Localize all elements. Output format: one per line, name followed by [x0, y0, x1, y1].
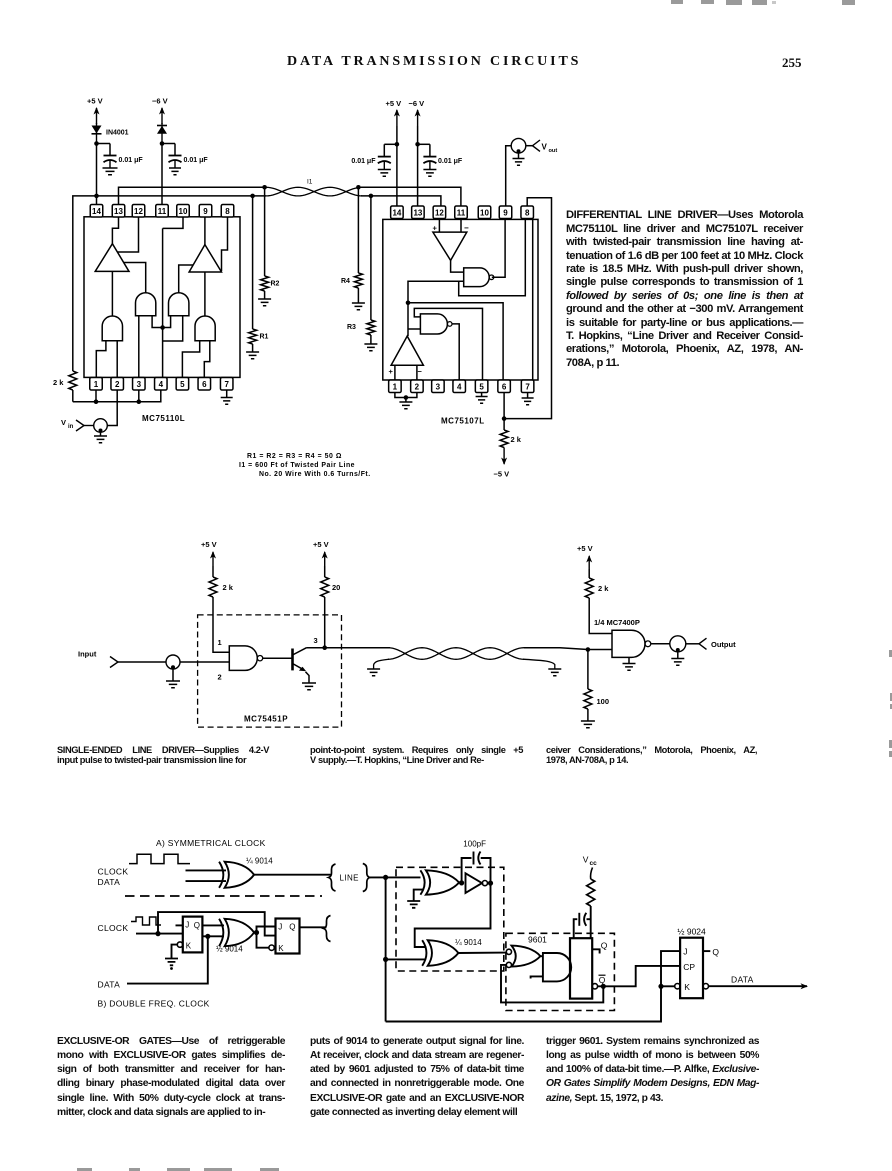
svg-text:R3: R3	[347, 324, 356, 331]
node pin1/bias	[94, 399, 99, 404]
Qbar output bubble (9601)	[592, 984, 597, 989]
node: line B / R1 junction	[250, 194, 255, 199]
NAND gate B (U2)	[420, 314, 447, 334]
wire clock input to XOR1	[186, 869, 227, 871]
wire delayed signal to XOR4	[415, 883, 491, 947]
-5V supply arrow	[494, 448, 510, 479]
svg-text:out: out	[549, 148, 558, 154]
wire stage A output to gate D	[111, 271, 113, 316]
node clock feedback tap	[155, 931, 160, 936]
wire NAND B upper input to pin 5	[414, 308, 482, 380]
wire branch to NAND B lower input	[408, 328, 420, 330]
pin 7 (U2 bottom)	[521, 380, 534, 393]
pin 14 (U1 top)	[90, 205, 103, 218]
ground stub left of line	[367, 659, 389, 676]
pin 2 (U2 bottom)	[411, 380, 424, 393]
twisted pair I1	[266, 187, 362, 196]
wire gate C to pin 6	[204, 341, 210, 378]
svg-text:+5 V: +5 V	[201, 540, 217, 549]
wire pin3 to bias rail	[138, 390, 140, 402]
Vout terminal	[526, 140, 558, 154]
wire pin2 to comparator B	[416, 365, 418, 380]
svg-text:10: 10	[480, 208, 489, 217]
wire gate B to centre rail	[163, 316, 183, 341]
resistor 2k (7400 input pull-up)	[585, 569, 609, 598]
wire gate A to pin 3	[138, 316, 140, 378]
Output terminal	[686, 638, 736, 649]
svg-text:K: K	[186, 941, 192, 950]
-6V supply terminal (receiver)	[409, 99, 425, 126]
pin 12 (U1 top)	[132, 205, 145, 218]
wire pin6 loop to pin 8	[504, 198, 551, 419]
ground at pin 7 (U1)	[221, 390, 233, 404]
wire centre rail to pin 4	[162, 228, 164, 377]
svg-text:CLOCK: CLOCK	[98, 866, 129, 876]
node XOR2 output	[254, 930, 259, 935]
node +5V / C3	[384, 142, 399, 147]
NAND gate U3a (75451)	[229, 646, 257, 671]
wire output node to twisted pair	[325, 647, 390, 649]
ground below C1	[103, 161, 118, 175]
pin 5 (U2 bottom)	[475, 380, 488, 393]
svg-text:13: 13	[114, 207, 123, 216]
pin 8 (U2 top)	[521, 206, 534, 219]
ground stub XOR3 input	[407, 890, 424, 908]
input terminal	[78, 650, 166, 668]
svg-text:+: +	[389, 367, 394, 376]
brace } after LINE	[363, 864, 370, 892]
wire bottom line to JK3 J/K	[386, 986, 661, 1021]
wire cross-coupling to pin 8	[459, 219, 526, 295]
svg-text:9: 9	[503, 208, 508, 217]
ground stub right of line	[523, 659, 561, 676]
wire line B to pin 12	[361, 196, 441, 206]
diode D1 IN4001	[92, 123, 129, 143]
resistor R2	[261, 187, 280, 299]
wire +5V down to pin 14	[396, 126, 398, 206]
pin 13 (U1 top)	[112, 205, 125, 218]
wire pin9 to Vout probe	[506, 146, 511, 206]
svg-text:½ 9024: ½ 9024	[677, 927, 706, 937]
wire pulse source to pin 2	[107, 390, 117, 426]
-6V supply terminal (driver)	[152, 97, 168, 125]
svg-text:4: 4	[159, 380, 164, 389]
wire data input to XOR1	[186, 880, 227, 882]
svg-text:0.01 μF: 0.01 μF	[438, 158, 463, 165]
ground below pins 1-2	[399, 398, 412, 409]
pin 4 (U2 bottom)	[453, 380, 466, 393]
wire pins 1-2 tied below	[395, 393, 417, 398]
inverter output bubble	[482, 881, 487, 886]
svg-text:+5 V: +5 V	[577, 544, 593, 553]
svg-text:0.01 μF: 0.01 μF	[119, 157, 144, 164]
svg-text:+5 V: +5 V	[87, 97, 103, 106]
+5V supply terminal (receiver)	[386, 99, 402, 126]
pin 4 (U1 bottom)	[155, 378, 168, 391]
wire: line A from pin 13 to twisted pair	[119, 187, 267, 217]
AND gate D (U1)	[102, 316, 122, 341]
wire NAND A output to pin 9	[492, 219, 505, 277]
svg-text:10: 10	[179, 207, 188, 216]
JK flip-flop 2 (1/2 9014 section)	[276, 919, 300, 954]
ground below C4	[423, 162, 436, 177]
XOR gate 4 (1/4 9014)	[422, 940, 426, 966]
capacitor C2 0.01uF	[169, 144, 209, 165]
wire feedback to JK2 clock	[158, 912, 276, 936]
wire junction to gate B	[163, 316, 171, 328]
svg-text:2: 2	[115, 380, 120, 389]
NAND gate A (U2)	[464, 268, 490, 287]
svg-text:9: 9	[203, 207, 208, 216]
ground below R4	[352, 303, 365, 310]
wire emitter to ground	[306, 672, 310, 683]
svg-text:MC75110L: MC75110L	[142, 414, 185, 423]
node pin3/bias	[137, 399, 142, 404]
pin 11 (U1 top)	[156, 205, 169, 218]
Q output stub (JK3)	[703, 950, 710, 952]
node J/K tie	[658, 984, 663, 989]
svg-text:Q: Q	[289, 923, 295, 932]
caption: exclusive-or gates col 1	[57, 1035, 285, 1120]
wire XOR1 output to LINE	[254, 874, 330, 876]
svg-text:MC75107L: MC75107L	[441, 417, 485, 426]
svg-text:5: 5	[180, 380, 185, 389]
svg-text:−5 V: −5 V	[494, 470, 510, 479]
svg-text:K: K	[684, 982, 690, 992]
pin 12 (U2 top)	[433, 206, 446, 219]
svg-text:0.01 μF: 0.01 μF	[351, 158, 376, 165]
timing resistor	[587, 879, 595, 906]
pin 10 (U2 top)	[478, 206, 491, 219]
wire +5V down to pin 14	[96, 144, 98, 205]
caption: differential line driver paragraph	[566, 209, 803, 370]
XOR gate 1 (1/4 9014)	[219, 862, 223, 888]
svg-text:CP: CP	[683, 962, 695, 972]
ground below pulse source	[166, 669, 180, 688]
NAND gate U4a (MC7400P)	[612, 630, 645, 657]
wire pin13 to stage A input	[112, 217, 118, 244]
wire pin10 jog to centre rail	[163, 217, 183, 228]
caption: exclusive-or gates col 3	[546, 1035, 759, 1106]
svg-text:−6 V: −6 V	[409, 99, 425, 108]
svg-text:6: 6	[502, 382, 507, 391]
resistor 20 (output pull-up)	[321, 566, 341, 597]
svg-text:5: 5	[479, 382, 484, 391]
svg-text:0.01 μF: 0.01 μF	[184, 157, 209, 164]
pin 3 (U2 bottom)	[432, 380, 445, 393]
svg-text:−: −	[418, 367, 423, 376]
node line A / R4	[356, 185, 361, 190]
svg-text:14: 14	[92, 207, 101, 216]
wire Qbar to JK3 clock	[598, 966, 681, 986]
K input bubble	[177, 942, 182, 947]
pin 1 (U1 bottom)	[90, 378, 103, 391]
RX/CX stub	[531, 976, 543, 978]
svg-text:2 k: 2 k	[223, 583, 234, 592]
svg-text:V: V	[583, 855, 589, 865]
dashed package outline MC75451P	[198, 615, 342, 727]
ground below C3	[378, 162, 391, 177]
wire gate C to pin 5	[182, 341, 199, 378]
svg-text:Q: Q	[601, 941, 608, 951]
XOR gate 2 (1/2 9014)	[219, 919, 223, 946]
capacitor 100pF feedback	[462, 852, 491, 884]
pin 11 (U2 top)	[455, 206, 468, 219]
svg-text:in: in	[68, 424, 74, 430]
svg-text:A) SYMMETRICAL CLOCK: A) SYMMETRICAL CLOCK	[156, 838, 266, 848]
K input bubble (JK3)	[675, 984, 680, 989]
wire gate D to pin 2	[116, 341, 118, 378]
brace { before LINE	[329, 864, 336, 891]
node centre rail junction	[160, 325, 165, 330]
output probe circle	[511, 138, 526, 153]
dashed box (line receiver gates)	[396, 867, 504, 971]
svg-text:11: 11	[158, 207, 167, 216]
svg-text:B) DOUBLE FREQ. CLOCK: B) DOUBLE FREQ. CLOCK	[98, 998, 210, 1008]
wire node to K bubble of JK2	[257, 933, 269, 948]
wire stage A to gate A	[124, 263, 146, 293]
svg-text:2: 2	[415, 382, 420, 391]
svg-text:J: J	[278, 923, 282, 932]
svg-text:11: 11	[457, 208, 466, 217]
svg-text:J: J	[185, 921, 189, 930]
node DATA / Qbar	[205, 934, 210, 939]
wire node to NAND lower input	[588, 649, 612, 651]
ground below pulse source	[94, 432, 107, 443]
AND gate C (U1)	[195, 316, 215, 341]
wire node to J input	[661, 951, 680, 986]
trigger OR gate input bubbles	[506, 949, 511, 954]
svg-text:K: K	[278, 944, 284, 953]
mono block rectangle (9601)	[570, 938, 592, 998]
comparator A (U2, inverted triangle)	[433, 232, 467, 260]
svg-text:1: 1	[393, 382, 398, 391]
page number 255	[782, 55, 802, 71]
node pin6 / 2k	[502, 416, 507, 421]
+5V terminal (7400 pull-up)	[577, 544, 593, 569]
ground below 100 ohm	[581, 721, 595, 728]
svg-text:R1: R1	[260, 334, 269, 341]
node line / 100 ohm / NAND input	[586, 647, 591, 652]
wire junction down to comparator B output	[407, 303, 409, 336]
caption: exclusive-or gates col 2	[310, 1035, 524, 1120]
svg-text:2: 2	[218, 673, 222, 682]
wire NAND output to transistor base	[263, 657, 293, 659]
wire LINE to XOR4 lower input	[386, 958, 425, 960]
+5V supply terminal (driver)	[87, 97, 103, 125]
svg-text:4: 4	[457, 382, 462, 391]
ground below JK1 K	[165, 959, 178, 966]
node XOR3 output	[459, 882, 463, 884]
svg-text:V: V	[542, 142, 548, 151]
wire node to J of JK2	[257, 927, 276, 933]
wire bias rail to pins 1,3,4	[73, 390, 161, 402]
capacitor C4 0.01uF	[423, 144, 462, 165]
Q output stub (9601)	[592, 949, 599, 953]
node: line A / R2 junction	[262, 185, 267, 190]
svg-text:20: 20	[332, 583, 340, 592]
resistor R3	[347, 196, 375, 344]
ground at emitter	[302, 683, 316, 690]
ground below probe	[513, 153, 525, 165]
dashed separator A/B	[125, 895, 322, 897]
svg-text:Q: Q	[194, 921, 200, 930]
svg-text:¼ 9014: ¼ 9014	[246, 857, 273, 866]
svg-text:LINE: LINE	[340, 874, 359, 883]
pin 8 (U1 top)	[221, 205, 234, 218]
wire pin11 to comparator A	[460, 219, 462, 232]
brace output continuation	[324, 916, 331, 942]
svg-text:14: 14	[392, 208, 401, 217]
pin 3 (U1 bottom)	[133, 378, 146, 391]
trigger OR gate (9601)	[512, 946, 541, 967]
wire 2k to NAND upper input	[589, 598, 612, 634]
wire gate B top to stage B flank	[179, 265, 194, 293]
node pins 1-2 ground tie	[404, 395, 409, 400]
wire NAND A lower input	[408, 281, 464, 303]
node collector / pull-up / line	[322, 645, 327, 650]
pulse source at Vin	[94, 419, 108, 433]
svg-text:1: 1	[94, 380, 99, 389]
svg-text:7: 7	[525, 382, 530, 391]
op-amp driver stage B (U1)	[189, 245, 221, 272]
capacitor C3 0.01uF	[351, 144, 390, 165]
wire AND to mono block	[570, 966, 571, 968]
node: -6V / C2 junction	[160, 141, 175, 146]
wire pin 8 to pin 7 rail	[532, 219, 534, 380]
caption: single-ended line driver col 2	[310, 746, 523, 765]
IC U2 MC75107L body	[383, 219, 538, 380]
capacitor C1 0.01uF	[104, 144, 144, 165]
wire NAND B output to pin 4	[452, 324, 459, 380]
transistor Q1	[293, 648, 307, 672]
svg-text:I1 = 600 Ft of Twisted Pair Li: I1 = 600 Ft of Twisted Pair Line	[239, 462, 355, 469]
pin 9 (U1 top)	[199, 205, 212, 218]
node: +5V joins line B	[94, 194, 99, 199]
Qbar output bubble (JK3)	[703, 984, 708, 989]
node LINE to XOR4	[383, 957, 388, 962]
wire LINE to receiver	[370, 876, 421, 878]
wire line A to pin 11	[361, 187, 461, 206]
wire Qbar of JK1 to XOR2	[202, 935, 224, 937]
ground below R2	[258, 299, 271, 306]
svg-text:3: 3	[137, 380, 142, 389]
ground at pin 5 (U2)	[476, 393, 488, 404]
clock waveform (B section)	[131, 917, 161, 925]
node strobe junction	[406, 301, 411, 306]
resistor 2k (driver pull-up)	[209, 566, 234, 597]
wire: line B wrap-around from 2k bias resistor	[73, 196, 266, 371]
wire pin12 to comparator A	[438, 219, 440, 232]
AND gate A (U1)	[136, 293, 156, 316]
svg-text:R4: R4	[341, 278, 350, 285]
wire collector to output node	[307, 647, 325, 649]
svg-text:Input: Input	[78, 650, 97, 659]
+5V terminal (2k pull-up, driver)	[201, 540, 217, 566]
wire Vcc to timing resistor	[591, 868, 593, 880]
svg-text:8: 8	[225, 207, 230, 216]
wire resistor to mono	[590, 906, 592, 938]
running head: DATA TRANSMISSION CIRCUITS	[287, 54, 581, 70]
scan marks bottom edge	[77, 1168, 92, 1171]
JK flip-flop 3 (1/2 9024)	[680, 938, 703, 999]
svg-text:7: 7	[224, 380, 229, 389]
output probe circle	[670, 636, 686, 652]
inverter (delay element)	[466, 873, 483, 893]
svg-text:13: 13	[413, 208, 422, 217]
timing capacitor	[574, 913, 591, 938]
wire gate D to pin 1	[96, 341, 106, 378]
wire K to ground	[172, 945, 178, 959]
wire comparator A output to NAND A	[451, 260, 464, 272]
svg-text:MC75451P: MC75451P	[244, 715, 288, 724]
dashed box 9601 mono	[506, 933, 615, 1010]
svg-text:3: 3	[436, 382, 441, 391]
wire pin8 to stage B	[222, 217, 228, 271]
caption: single-ended line driver col 3	[546, 746, 757, 765]
pin 1 (U2 bottom)	[389, 380, 402, 393]
caption: single-ended line driver col 1	[57, 746, 269, 765]
resistor 2k (receiver output pull)	[500, 419, 522, 448]
svg-text:9601: 9601	[528, 935, 547, 945]
K input bubble (JK2)	[269, 945, 274, 950]
wire pin9 to stage B input	[204, 217, 206, 245]
wire pin1 to bias rail	[95, 390, 97, 402]
svg-text:12: 12	[435, 208, 444, 217]
svg-text:100pF: 100pF	[463, 839, 486, 848]
ground stub of NAND	[623, 657, 636, 670]
resistor 100 (line termination)	[584, 650, 609, 722]
wire junction to pin 6	[408, 303, 503, 380]
wire retrigger feedback to OR input	[501, 965, 603, 1003]
wire Q of JK1 to XOR2	[202, 924, 224, 926]
svg-text:12: 12	[134, 207, 143, 216]
node -6V / C4	[415, 142, 430, 147]
pin 10 (U1 top)	[177, 205, 190, 218]
svg-text:2 k: 2 k	[511, 435, 522, 444]
diode D2	[157, 123, 167, 143]
wire twisted pair to receiver node	[524, 648, 588, 650]
IC U1 MC75110L body	[84, 217, 240, 378]
svg-text:+5 V: +5 V	[386, 99, 402, 108]
pin 6 (U1 bottom)	[198, 378, 211, 391]
ground below output probe	[671, 652, 684, 666]
wire stage B output to gate C	[204, 272, 206, 316]
node LINE junction	[383, 875, 388, 880]
svg-text:DATA: DATA	[731, 974, 754, 984]
AND gate B (U1)	[169, 293, 189, 316]
scan marks right edge	[889, 650, 892, 657]
pin 7 (U1 bottom)	[220, 378, 233, 391]
wire junction to gate A	[152, 316, 163, 328]
wire clock to JK1	[136, 933, 183, 935]
pin 13 (U2 top)	[412, 206, 425, 219]
svg-text:6: 6	[202, 380, 207, 389]
wire DATA into XOR2 input	[127, 936, 208, 983]
wire DATA output with arrow	[709, 985, 808, 987]
svg-text:2 k: 2 k	[53, 378, 64, 387]
svg-text:3: 3	[314, 636, 318, 645]
wire XOR2 output node	[254, 932, 258, 934]
resistor R1	[249, 196, 269, 352]
node inverter output	[488, 882, 493, 884]
svg-text:¼ 9014: ¼ 9014	[455, 938, 482, 947]
wire -6V down to pin 11	[161, 144, 163, 205]
J input stub	[176, 924, 183, 926]
svg-text:No. 20 Wire With 0.6 Turns/Ft.: No. 20 Wire With 0.6 Turns/Ft.	[259, 471, 371, 478]
wire pin6 down to 2k node	[503, 393, 505, 419]
wire pin1 to comparator B	[394, 365, 396, 380]
